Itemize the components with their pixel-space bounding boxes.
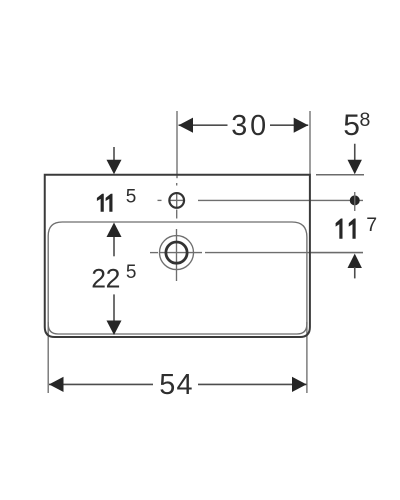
dim 5.8: down arrow to basin top edge level: [354, 144, 356, 161]
svg-text:22: 22: [91, 264, 120, 294]
svg-text:54: 54: [159, 369, 192, 401]
dim 11.5: down arrow above basin top edge: [113, 147, 115, 161]
wire: top edge level line right side: [316, 174, 364, 176]
arrow left of 30 dim: [179, 118, 194, 133]
wire: tap hole horizontal centerline: [158, 199, 364, 201]
basin inner bowl outline: [48, 222, 307, 334]
label 30: [228, 112, 271, 138]
svg-text:5: 5: [343, 109, 360, 142]
label 54: [153, 371, 198, 398]
dimension line 30: [179, 124, 309, 126]
drain inner circle: [166, 242, 187, 263]
label 11.5: [97, 194, 104, 212]
tap hole circle: [169, 193, 184, 208]
arrow right of 30 dim: [294, 118, 309, 133]
dimension line 54: [49, 383, 307, 385]
drain outer circle: [160, 236, 194, 270]
wire: extension line right of 54 dim: [306, 322, 308, 393]
wire: drain centerline level line right side: [311, 252, 363, 254]
arrow right of 54 dim: [292, 377, 307, 392]
dim 22.5: up arrow at inner bowl top edge: [113, 236, 115, 256]
svg-text:7: 7: [366, 214, 377, 236]
wire: extension line left of 54 dim: [47, 322, 49, 393]
wire: extension line left of 30 dim: [176, 111, 178, 178]
dim 22.5: down arrow at bowl bottom edge: [113, 294, 115, 321]
dim 11.7: up arrow to drain centerline level: [348, 254, 362, 268]
node: dot on tap centerline right side: [350, 195, 360, 205]
svg-text:5: 5: [126, 186, 137, 207]
label 11.7: [336, 219, 343, 239]
arrow left of 54 dim: [49, 377, 64, 392]
wire: extension line right of 30 dim: [309, 111, 311, 174]
svg-text:5: 5: [126, 262, 137, 283]
wire: drain horizontal centerline: [150, 252, 363, 254]
wire: drain vertical centerline: [176, 229, 178, 281]
wire: tap hole vertical centerline: [176, 183, 178, 219]
basin outer outline: [45, 175, 310, 337]
svg-text:8: 8: [360, 109, 371, 131]
